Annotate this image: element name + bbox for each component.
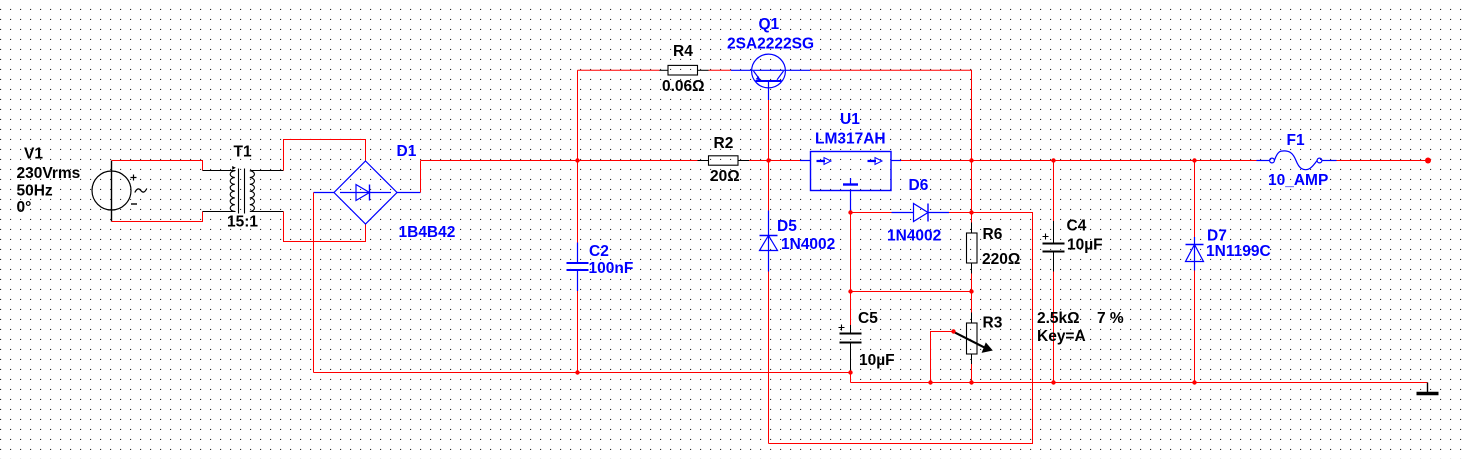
node R6 bottom / R3 top xyxy=(969,289,973,293)
wire U1 out down xyxy=(971,161,973,213)
wire row 291 xyxy=(851,291,972,293)
svg-text:D1: D1 xyxy=(397,143,417,160)
svg-text:10µF: 10µF xyxy=(859,352,895,369)
wire bridge left down xyxy=(313,193,315,373)
svg-text:10_AMP: 10_AMP xyxy=(1268,172,1328,189)
node Q1 base / D5 on main bus xyxy=(766,158,770,162)
labels blue xyxy=(397,16,1329,277)
wire T1 to bridge bottom xyxy=(284,212,366,242)
svg-text:C2: C2 xyxy=(589,243,609,260)
potentiometer R3 leads xyxy=(971,292,973,313)
output terminal xyxy=(1425,158,1431,164)
svg-text:220Ω: 220Ω xyxy=(982,251,1020,268)
svg-text:0.06Ω: 0.06Ω xyxy=(662,78,705,95)
wire black T1 left bottom xyxy=(203,211,236,213)
AC source V1 xyxy=(92,161,147,222)
svg-text:50Hz: 50Hz xyxy=(17,183,53,200)
wire C2 bottom xyxy=(577,291,579,373)
wire V1 bottom xyxy=(112,212,203,222)
svg-text:C5: C5 xyxy=(858,310,878,327)
wire Q1 collector right xyxy=(810,70,972,160)
resistor R2 xyxy=(709,156,739,165)
node R3 bottom on bottom bus xyxy=(969,380,973,384)
wire black T1 left top xyxy=(203,170,236,172)
node D6 cathode / R6 top xyxy=(969,210,973,214)
svg-text:10µF: 10µF xyxy=(1067,237,1103,254)
resistor R4 xyxy=(668,65,698,75)
node U1 adj / D6 anode xyxy=(848,210,852,214)
svg-text:C4: C4 xyxy=(1067,218,1087,235)
node R3 wiper xyxy=(951,329,955,333)
svg-text:1B4B42: 1B4B42 xyxy=(399,224,456,241)
wire V1 top xyxy=(112,161,203,171)
svg-text:LM317AH: LM317AH xyxy=(815,131,886,148)
wire F1 out xyxy=(1337,160,1429,162)
wire Q1 base down xyxy=(768,100,770,211)
wire D6 right xyxy=(949,212,972,214)
svg-text:7 %: 7 % xyxy=(1097,310,1124,327)
svg-text:2SA2222SG: 2SA2222SG xyxy=(727,36,814,53)
wire black T1 right bottom xyxy=(251,211,284,213)
wire to C5 xyxy=(850,292,852,326)
junction dots xyxy=(575,158,1196,384)
diode D7 leads xyxy=(1194,161,1196,238)
svg-text:Key=A: Key=A xyxy=(1037,328,1086,345)
node D7 top on main bus xyxy=(1192,158,1196,162)
svg-text:1N1199C: 1N1199C xyxy=(1206,243,1271,260)
svg-text:0°: 0° xyxy=(17,199,32,216)
svg-text:F1: F1 xyxy=(1287,132,1305,149)
node C2/R4 tap on main bus xyxy=(575,158,579,162)
svg-text:V1: V1 xyxy=(24,146,43,163)
svg-text:230Vrms: 230Vrms xyxy=(17,165,81,182)
wire R3 wiper xyxy=(931,332,954,383)
resistor R2 leads xyxy=(698,160,709,162)
wire R3 bottom xyxy=(971,364,973,383)
regulator U1 xyxy=(800,152,901,213)
wire bridge right up xyxy=(420,161,422,193)
resistor R6 xyxy=(967,233,978,263)
node C4 bottom on bottom bus xyxy=(1051,380,1055,384)
capacitor C5 xyxy=(839,325,862,373)
svg-text:15:1: 15:1 xyxy=(227,214,258,231)
wire U1 adj to D6 xyxy=(851,212,892,214)
svg-text:1N4002: 1N4002 xyxy=(781,236,835,253)
node C2 bottom on bus xyxy=(575,370,579,374)
wire bottom bus B xyxy=(851,382,1428,384)
wire C4 bottom xyxy=(1053,272,1055,383)
node C5 bottom on bus xyxy=(848,370,852,374)
wire T1 to bridge top xyxy=(284,140,366,171)
svg-text:R6: R6 xyxy=(983,226,1003,243)
transformer T1 xyxy=(230,169,254,214)
capacitor C4 xyxy=(1043,234,1065,272)
wire D7 bottom xyxy=(1194,271,1196,383)
svg-text:R3: R3 xyxy=(983,315,1003,332)
wire black T1 right top xyxy=(251,170,284,172)
diode D5 xyxy=(760,211,778,272)
wire D5 down xyxy=(768,272,770,444)
diode D6 xyxy=(892,204,950,222)
transistor Q1 xyxy=(731,54,810,100)
svg-text:Q1: Q1 xyxy=(759,16,780,33)
resistor R4 leads xyxy=(660,69,669,71)
wire bottom loop xyxy=(769,213,1033,444)
wire C2 riser R4 xyxy=(577,70,579,160)
potentiometer R3 xyxy=(967,323,978,354)
wire main bus left xyxy=(421,160,698,162)
svg-text:100nF: 100nF xyxy=(589,260,634,277)
svg-text:D7: D7 xyxy=(1207,228,1227,245)
wire R4 to Q1 xyxy=(709,69,732,71)
capacitor C4 leads xyxy=(1053,161,1055,222)
bridge rectifier D1 xyxy=(314,161,421,224)
node wiper return on bottom bus xyxy=(928,380,932,384)
svg-text:20Ω: 20Ω xyxy=(710,168,740,185)
diode D7 xyxy=(1186,237,1204,271)
wire R4 row left xyxy=(578,69,660,71)
labels black xyxy=(17,43,1124,369)
R3 wiper arrow xyxy=(954,332,987,349)
svg-text:D6: D6 xyxy=(909,177,929,194)
wire C5 jog xyxy=(850,373,852,383)
ground xyxy=(1427,383,1429,394)
node C5 top row left xyxy=(848,289,852,293)
node U1 output on main bus xyxy=(969,158,973,162)
fuse F1 xyxy=(1257,151,1337,170)
node C4 top on main bus xyxy=(1051,158,1055,162)
svg-text:2.5kΩ: 2.5kΩ xyxy=(1037,310,1080,327)
svg-text:D5: D5 xyxy=(777,218,797,235)
wire main bus right xyxy=(901,160,1257,162)
svg-text:T1: T1 xyxy=(234,144,252,161)
wire bottom bus A xyxy=(314,372,851,374)
T1 phase arrow xyxy=(232,166,236,170)
resistor R6 leads xyxy=(971,213,973,223)
wire adj down left branch xyxy=(850,213,852,292)
node D7 bottom on bottom bus xyxy=(1192,380,1196,384)
svg-text:R4: R4 xyxy=(673,43,693,60)
svg-text:1N4002: 1N4002 xyxy=(887,228,941,245)
svg-text:R2: R2 xyxy=(714,135,734,152)
wire R2 to U1 xyxy=(749,160,800,162)
capacitor C2 xyxy=(577,161,579,243)
wire R6 bottom xyxy=(971,274,973,292)
svg-text:U1: U1 xyxy=(840,111,860,128)
